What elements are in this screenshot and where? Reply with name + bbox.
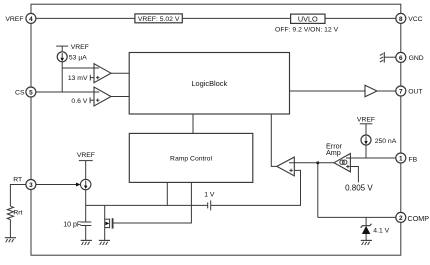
wire battery to PWM comparator bbox=[211, 170, 301, 205]
wire ramp rail bbox=[86, 204, 208, 206]
pin 3 RT bbox=[13, 177, 36, 190]
svg-text:1 V: 1 V bbox=[204, 191, 215, 198]
wire LogicBlock to PWM comparator bbox=[271, 114, 277, 166]
svg-text:CS: CS bbox=[15, 90, 25, 97]
svg-text:FB: FB bbox=[409, 156, 418, 163]
wire FB line bbox=[346, 157, 396, 159]
current source 53 uA bbox=[57, 52, 87, 62]
svg-text:250 nA: 250 nA bbox=[375, 138, 397, 145]
ground at GND pin (rotated) bbox=[380, 52, 384, 63]
wire comparator1 to LogicBlock bbox=[111, 72, 129, 74]
svg-text:OFF: 9.2 V/ON: 12 V: OFF: 9.2 V/ON: 12 V bbox=[275, 26, 339, 33]
svg-text:UVLO: UVLO bbox=[298, 14, 318, 23]
wire buffer to OUT pin bbox=[377, 90, 396, 92]
wire 53uA to CS line bbox=[61, 62, 63, 92]
ground below transistor bbox=[99, 240, 110, 245]
svg-text:OUT: OUT bbox=[408, 89, 422, 96]
VREF terminal at 250nA source bbox=[357, 116, 375, 135]
wire LogicBlock to output buffer bbox=[290, 90, 366, 92]
ground below zener bbox=[361, 240, 372, 245]
current source 250 nA bbox=[361, 135, 397, 145]
svg-text:VREF: 5.02 V: VREF: 5.02 V bbox=[138, 16, 180, 23]
wire Rrt to ground bbox=[9, 220, 11, 238]
svg-text:LogicBlock: LogicBlock bbox=[191, 79, 227, 88]
wire GND pin to ground bbox=[384, 56, 396, 58]
pin 2 COMP bbox=[396, 212, 429, 223]
svg-text:13 mV: 13 mV bbox=[68, 75, 88, 82]
VREF terminal at RT current source bbox=[77, 152, 95, 179]
block VREF 5.02V bbox=[135, 14, 182, 23]
wire COMP to error amp output bbox=[317, 163, 319, 218]
svg-text:GND: GND bbox=[409, 55, 424, 62]
svg-text:Amp: Amp bbox=[326, 148, 341, 157]
wire to comparator minus input bbox=[62, 67, 99, 69]
pin 1 FB bbox=[396, 153, 418, 163]
svg-text:4.1 V: 4.1 V bbox=[373, 227, 389, 234]
svg-text:2: 2 bbox=[399, 215, 403, 222]
wire current source to ramp node bbox=[85, 190, 87, 222]
svg-text:VREF: VREF bbox=[357, 116, 375, 123]
wire Ramp Control to ramp rail bbox=[166, 182, 168, 205]
svg-text:7: 7 bbox=[399, 88, 403, 95]
block LogicBlock U1 bbox=[129, 53, 289, 115]
svg-text:VREF: VREF bbox=[71, 44, 89, 51]
wire drain to Ramp Control bbox=[113, 182, 192, 223]
svg-text:6: 6 bbox=[399, 55, 403, 62]
offset source 13 mV bbox=[68, 75, 94, 83]
svg-text:4: 4 bbox=[29, 16, 33, 23]
VREF terminal at 53uA source bbox=[56, 44, 89, 52]
svg-text:53 µA: 53 µA bbox=[69, 54, 87, 61]
pin 5 CS bbox=[15, 87, 36, 97]
reference 0.805 V bbox=[345, 167, 373, 193]
block Ramp Control bbox=[129, 133, 253, 182]
comparator (0.6 V) bbox=[94, 87, 111, 106]
svg-text:COMP: COMP bbox=[408, 214, 430, 223]
offset source 0.6 V bbox=[71, 97, 94, 105]
svg-text:8: 8 bbox=[399, 16, 403, 23]
wire COMP line bbox=[318, 216, 396, 218]
wire RT pin to current source (with arrow) bbox=[36, 184, 78, 186]
resistor Rrt bbox=[7, 206, 13, 219]
zener diode 4.1 V bbox=[361, 217, 390, 240]
comparator (13 mV) bbox=[94, 64, 111, 83]
op-amp PWM comparator bbox=[277, 157, 295, 176]
pin 6 GND bbox=[396, 52, 424, 62]
svg-text:VCC: VCC bbox=[408, 16, 422, 23]
svg-text:Rrt: Rrt bbox=[13, 209, 22, 216]
pin 8 VCC bbox=[396, 13, 423, 23]
node junction bbox=[317, 162, 320, 165]
svg-text:Ramp Control: Ramp Control bbox=[170, 155, 212, 162]
wire RT pin to Rrt bbox=[10, 185, 26, 207]
capacitor 10 pF bbox=[63, 222, 91, 241]
wire LogicBlock to Ramp Control bbox=[192, 114, 194, 133]
svg-text:0.805 V: 0.805 V bbox=[345, 184, 373, 193]
ground below Rrt bbox=[5, 238, 16, 243]
wire 250nA to FB line bbox=[365, 145, 367, 158]
svg-text:0.6 V: 0.6 V bbox=[71, 98, 87, 105]
transistor Q1 (ramp discharge MOSFET) bbox=[105, 205, 113, 240]
svg-text:10 pF: 10 pF bbox=[63, 222, 81, 229]
pin 7 OUT bbox=[396, 86, 423, 96]
block UVLO bbox=[291, 14, 325, 23]
svg-text:5: 5 bbox=[29, 89, 33, 96]
svg-text:VREF: VREF bbox=[77, 152, 95, 159]
svg-text:RT: RT bbox=[13, 177, 22, 184]
battery 1 V bbox=[204, 191, 215, 210]
buffer output driver bbox=[365, 85, 377, 97]
wire error amp output to PWM comparator bbox=[289, 162, 334, 164]
current source I (RT) bbox=[81, 179, 91, 189]
wire CS line bbox=[36, 91, 99, 93]
op-amp error amp bbox=[326, 141, 351, 172]
svg-text:3: 3 bbox=[29, 182, 33, 189]
svg-text:1: 1 bbox=[399, 155, 403, 162]
wire VREF/VCC top rail bbox=[31, 17, 401, 19]
wire comparator2 to LogicBlock bbox=[111, 96, 129, 98]
ground below capacitor bbox=[81, 240, 92, 245]
svg-text:VREF: VREF bbox=[5, 16, 23, 23]
pin 4 VREF bbox=[5, 13, 36, 23]
